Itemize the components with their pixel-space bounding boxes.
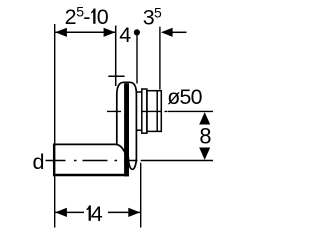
- dimension line 2.5-10: [55, 31, 116, 33]
- wall tick: [108, 75, 124, 77]
- svg-text:4: 4: [91, 202, 103, 226]
- socket body: [147, 91, 161, 132]
- svg-text:0: 0: [97, 5, 109, 29]
- socket mouth inner line: [156, 91, 158, 132]
- label 14: [87, 205, 91, 220]
- arrowhead right of 14: [128, 208, 140, 217]
- arrowhead of 3.5 dimension: [161, 28, 173, 37]
- pipe axis centerline dash-dot with d leader: [46, 160, 138, 162]
- extension line right of 14 dimension: [140, 163, 142, 228]
- flange bar: [124, 83, 129, 176]
- svg-text:ø50: ø50: [167, 85, 202, 109]
- svg-text:-: -: [83, 5, 90, 29]
- arrowhead down of 8 dimension: [199, 148, 210, 160]
- socket axis centerline dash-dot: [107, 110, 168, 112]
- socket neck top: [137, 91, 142, 93]
- extension line left (pipe mouth plane): [54, 24, 56, 228]
- dot terminator of 4 dimension: [134, 29, 140, 35]
- svg-text:8: 8: [199, 124, 211, 149]
- reference line top of 8 dimension: [168, 110, 214, 112]
- extension line socket end plane: [159, 27, 161, 90]
- extension line from dot down to trap face: [136, 35, 138, 83]
- dimension line 14 left segment: [55, 211, 84, 213]
- svg-text:d: d: [33, 149, 45, 174]
- pipe left edge: [53, 144, 55, 177]
- pipe top edge: [53, 143, 117, 145]
- svg-text:2: 2: [65, 5, 77, 29]
- arrowhead left of 2.5-10: [55, 28, 67, 37]
- pipe to bell fillet: [116, 144, 124, 152]
- socket neck bottom: [137, 129, 142, 131]
- dimension line 14 right segment: [108, 211, 140, 213]
- trap bell outline: [117, 82, 137, 169]
- arrowhead right of 2.5-10: [104, 28, 116, 37]
- socket ring: [142, 89, 147, 133]
- arrowhead up of 8 dimension: [199, 112, 210, 124]
- reference line bottom of 8 dimension: [141, 160, 213, 162]
- svg-text:4: 4: [119, 23, 131, 47]
- extension line wall plane: [115, 26, 117, 87]
- pipe bottom edge: [53, 174, 126, 176]
- tail line of 3.5 dimension: [172, 31, 187, 33]
- arrowhead left of 14: [55, 208, 67, 217]
